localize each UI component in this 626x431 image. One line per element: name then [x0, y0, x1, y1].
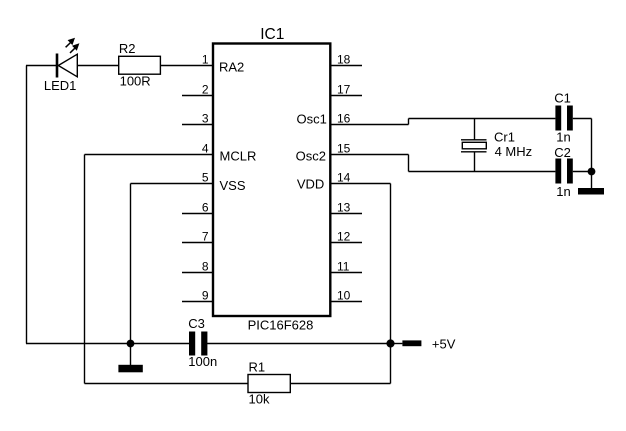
svg-text:17: 17: [337, 82, 351, 96]
wire pin 18 stub: [330, 65, 362, 67]
wire pin 16 jog: [408, 119, 410, 125]
wire ground 1 stem: [130, 344, 132, 366]
svg-text:10k: 10k: [249, 391, 270, 406]
wire pin 16 stub: [330, 124, 409, 126]
svg-text:8: 8: [202, 259, 209, 273]
wire pin 9 stub: [182, 301, 213, 303]
wire +5V stub: [391, 343, 403, 345]
wire bottom to R1 left: [85, 383, 249, 385]
svg-text:11: 11: [337, 259, 350, 273]
wire pin 7 stub: [182, 242, 213, 244]
svg-text:4 MHz: 4 MHz: [495, 144, 533, 159]
svg-text:100n: 100n: [188, 354, 217, 369]
capacitor C1 plates: [555, 106, 572, 131]
capacitor C2 plates: [555, 159, 572, 184]
wire oscillator bottom rail: [409, 171, 556, 173]
wire MCLR vertical: [84, 155, 86, 384]
svg-text:16: 16: [337, 111, 351, 125]
LED D1 light arrow 2: [70, 43, 79, 53]
wire VDD vertical: [390, 184, 392, 384]
svg-text:10: 10: [337, 288, 351, 302]
svg-text:14: 14: [337, 170, 351, 184]
junction node C2/ground: [588, 168, 596, 176]
IC U1 body PIC16F628: [213, 44, 330, 317]
svg-text:7: 7: [202, 229, 209, 243]
junction node VSS/ground: [127, 340, 135, 348]
svg-text:2: 2: [202, 82, 209, 96]
svg-text:100R: 100R: [120, 73, 151, 88]
wire pin 17 stub: [330, 95, 362, 97]
svg-text:MCLR: MCLR: [220, 148, 257, 163]
svg-text:IC1: IC1: [260, 26, 284, 43]
wire C2 right lead: [573, 171, 592, 173]
svg-text:Osc1: Osc1: [297, 111, 327, 126]
ground symbol right: [578, 188, 604, 195]
svg-text:13: 13: [337, 200, 351, 214]
svg-text:Cr1: Cr1: [494, 130, 515, 145]
wire bottom rail left to C3: [26, 343, 190, 345]
crystal Cr1: [461, 140, 487, 152]
wire pin 3 stub: [182, 124, 213, 126]
svg-text:18: 18: [337, 52, 351, 66]
svg-text:Osc2: Osc2: [296, 148, 326, 163]
wire pin 12 stub: [330, 242, 362, 244]
wire pin 15 stub: [330, 154, 409, 156]
wire LED to R2: [77, 65, 118, 67]
svg-text:15: 15: [337, 141, 351, 155]
svg-text:3: 3: [202, 111, 209, 125]
wire right vertical C1 to C2: [591, 119, 593, 172]
svg-text:C2: C2: [554, 145, 571, 160]
svg-text:9: 9: [202, 288, 209, 302]
wire pin 2 stub: [182, 95, 213, 97]
wire VSS vertical: [130, 184, 132, 344]
LED D1 cathode bar: [56, 54, 59, 78]
svg-text:C1: C1: [554, 90, 571, 105]
svg-text:1: 1: [202, 52, 209, 66]
wire C3 to +5V node: [207, 343, 391, 345]
svg-text:12: 12: [337, 229, 351, 243]
svg-text:R2: R2: [119, 41, 136, 56]
wire pin 13 stub: [330, 213, 362, 215]
svg-text:LED1: LED1: [44, 78, 77, 93]
wire MCLR horizontal pin 4: [85, 154, 214, 156]
resistor R1: [248, 375, 290, 393]
wire pin 8 stub: [182, 272, 213, 274]
svg-text:5: 5: [202, 170, 209, 184]
svg-text:4: 4: [202, 141, 209, 155]
junction node +5V: [386, 339, 394, 347]
wire oscillator top rail: [409, 118, 556, 120]
wire R2 to pin 1: [160, 65, 213, 67]
wire pin 10 stub: [330, 301, 362, 303]
wire pin 6 stub: [182, 213, 213, 215]
wire R1 right to VDD vertical: [290, 383, 390, 385]
LED D1 triangle: [58, 54, 77, 77]
svg-text:1n: 1n: [556, 184, 570, 199]
wire VDD horizontal pin 14: [330, 183, 391, 185]
svg-text:+5V: +5V: [432, 337, 456, 352]
svg-text:1n: 1n: [556, 130, 570, 145]
wire crystal bottom stem: [474, 152, 476, 172]
svg-text:6: 6: [202, 200, 209, 214]
svg-text:RA2: RA2: [219, 59, 244, 74]
resistor R2: [119, 56, 161, 74]
wire left vertical from LED: [26, 66, 28, 344]
wire pin 15 jog: [408, 155, 410, 172]
LED D1 light arrow 1: [66, 38, 75, 48]
wire C1 right lead: [573, 118, 592, 120]
ground symbol left: [118, 365, 142, 373]
power +5V bar: [402, 340, 421, 346]
wire ground 2 stem: [591, 172, 593, 189]
svg-text:C3: C3: [188, 316, 205, 331]
wire LED left lead: [26, 65, 56, 67]
svg-text:R1: R1: [249, 360, 266, 375]
wire crystal top stem: [474, 119, 476, 140]
wire pin 11 stub: [330, 272, 362, 274]
svg-text:VSS: VSS: [220, 178, 246, 193]
svg-text:PIC16F628: PIC16F628: [248, 317, 314, 332]
svg-text:VDD: VDD: [297, 177, 324, 192]
capacitor C3 plates: [189, 332, 207, 356]
wire VSS horizontal pin 5: [131, 183, 214, 185]
